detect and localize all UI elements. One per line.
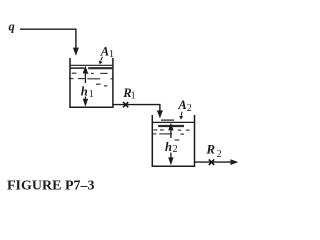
outlet pipe tank 1 [114,105,160,112]
pointer arrow A1 to surface [99,57,103,65]
liquid shading dashes tank 2 [152,130,189,140]
svg-text:2: 2 [173,144,178,155]
svg-text:1: 1 [109,49,114,60]
dimension arrow h1 (double headed) [83,66,88,107]
dimension arrow h2 (double headed) [168,123,173,166]
label h1 [81,85,94,100]
water surface tank 1 [71,65,113,68]
label R2 [205,141,221,160]
valve R1 (X symbol) [123,102,128,107]
svg-text:h: h [165,140,172,154]
pointer arrow A2 to surface [179,112,183,120]
svg-text:FIGURE P7–3: FIGURE P7–3 [7,178,95,193]
svg-text:h: h [81,85,88,99]
outlet pipe tank 2 with flow arrow [195,159,238,165]
valve R2 (X symbol) [209,159,214,165]
svg-text:1: 1 [89,89,94,100]
tank T1 (open-top vessel) [70,58,113,107]
svg-text:A: A [100,44,109,58]
label h2 [165,140,178,155]
wire arrow into tank 2 [157,110,163,118]
water surface tank 2 [153,120,194,126]
label R1 [122,86,135,102]
svg-text:R: R [205,141,215,156]
svg-text:A: A [177,98,186,112]
wire q inlet into tank 1 [20,29,79,56]
label A2 [177,98,191,114]
svg-text:q: q [9,20,15,34]
tank T2 (open-top vessel) [152,115,194,166]
svg-text:2: 2 [187,103,192,114]
svg-text:1: 1 [131,91,136,102]
liquid shading dashes tank 1 [69,73,113,86]
label A1 [100,44,114,60]
svg-text:2: 2 [217,149,222,160]
